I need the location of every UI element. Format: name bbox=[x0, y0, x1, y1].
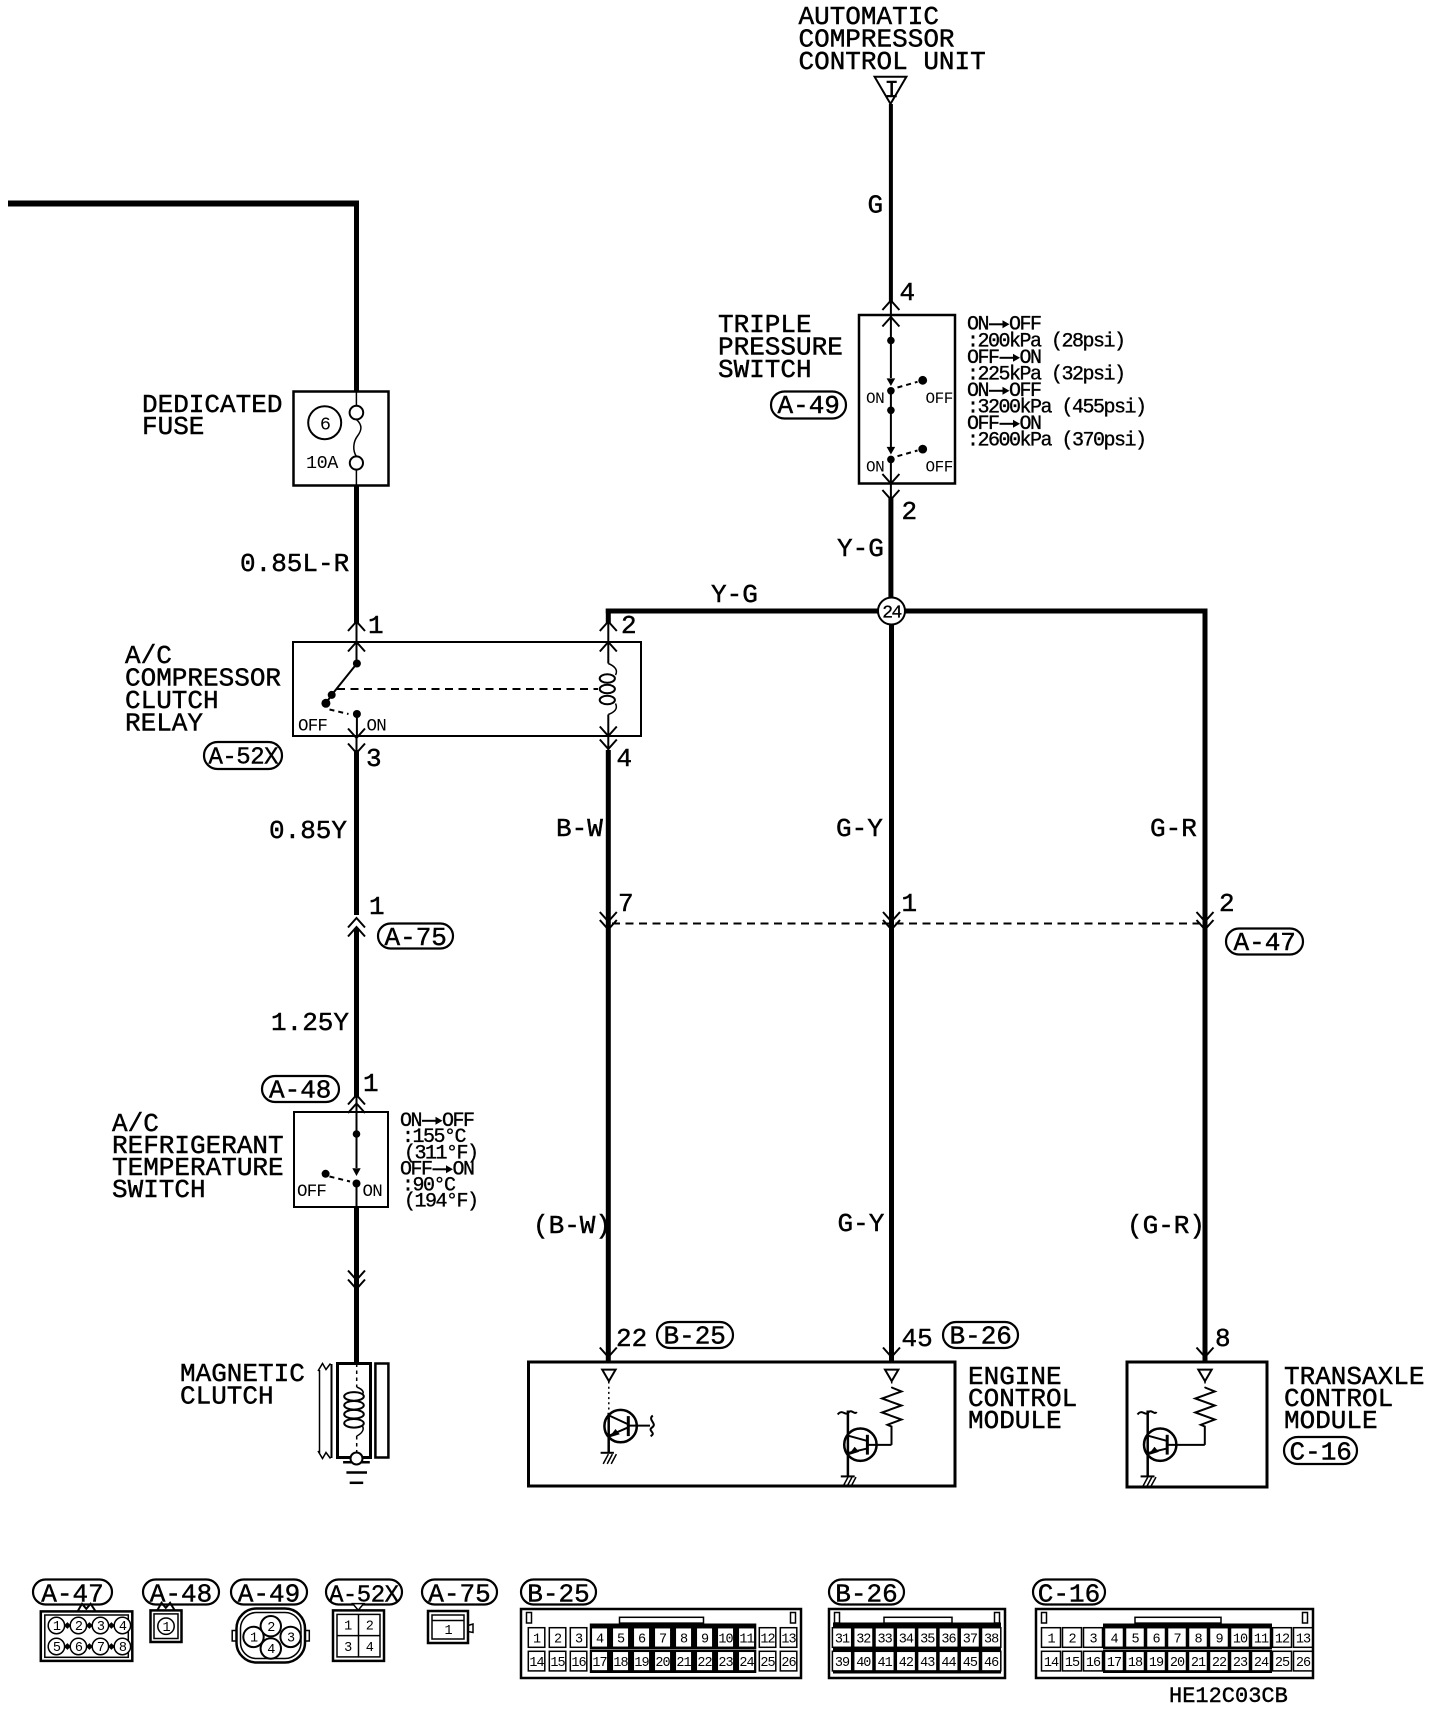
connector view label C-16 bbox=[1033, 1579, 1105, 1609]
svg-text:33: 33 bbox=[877, 1632, 892, 1647]
svg-text:B-25: B-25 bbox=[664, 1322, 726, 1352]
transistor Q1 (ECM pin 22 driver) bbox=[604, 1410, 653, 1442]
svg-text:ON: ON bbox=[866, 459, 884, 477]
relay pin 4 bbox=[600, 727, 632, 775]
svg-text:MODULE: MODULE bbox=[968, 1406, 1062, 1436]
svg-text:34: 34 bbox=[899, 1632, 914, 1647]
svg-text:G: G bbox=[868, 191, 884, 221]
svg-text:2: 2 bbox=[621, 611, 637, 641]
svg-text:22: 22 bbox=[616, 1324, 647, 1354]
relay coil (pins 2-4) bbox=[600, 642, 617, 736]
wire B-W from relay pin 4 to ECM pin 22 bbox=[533, 750, 611, 1361]
svg-text:13: 13 bbox=[1296, 1632, 1311, 1647]
connector view label B-26 bbox=[829, 1579, 904, 1609]
ECM input triangle at pin 22 bbox=[602, 1370, 615, 1382]
svg-text:4: 4 bbox=[900, 278, 916, 308]
connector view label A-52X bbox=[326, 1580, 402, 1610]
svg-text:16: 16 bbox=[1086, 1656, 1101, 1671]
svg-text:9: 9 bbox=[701, 1632, 709, 1647]
svg-text:1: 1 bbox=[1047, 1632, 1055, 1647]
connector label B-25 bbox=[657, 1322, 733, 1352]
svg-text:5: 5 bbox=[617, 1632, 625, 1647]
TCM pin 8 bbox=[1197, 1324, 1231, 1357]
svg-text:12: 12 bbox=[1275, 1632, 1290, 1647]
connector label A-48 bbox=[262, 1076, 339, 1106]
resistor R1 (ECM pin 45 pull) bbox=[882, 1388, 902, 1445]
svg-text:44: 44 bbox=[941, 1656, 956, 1671]
svg-text:17: 17 bbox=[1107, 1656, 1122, 1671]
connector A-47 pin 2 (G-R) bbox=[1197, 889, 1235, 930]
svg-text:A-47: A-47 bbox=[1234, 928, 1296, 958]
temperature spec text bbox=[400, 1110, 478, 1214]
pin 4 of triple pressure switch bbox=[882, 278, 915, 340]
svg-text:B-W: B-W bbox=[556, 814, 603, 844]
svg-text:41: 41 bbox=[877, 1656, 892, 1671]
svg-text:45: 45 bbox=[902, 1324, 933, 1354]
wire 0.85L-R from fuse to relay bbox=[240, 486, 357, 625]
svg-text:1: 1 bbox=[53, 1620, 61, 1635]
svg-text:1: 1 bbox=[444, 1624, 452, 1639]
svg-text:(B-W): (B-W) bbox=[533, 1211, 611, 1241]
A/C refrigerant temperature switch box bbox=[294, 1112, 388, 1207]
svg-text:4: 4 bbox=[1110, 1632, 1118, 1647]
svg-text:7: 7 bbox=[659, 1632, 667, 1647]
connector label A-75 bbox=[378, 923, 453, 953]
relay pin 1 bbox=[348, 611, 384, 663]
wire down to dedicated fuse bbox=[354, 206, 359, 391]
svg-text:B-25: B-25 bbox=[527, 1579, 589, 1609]
magnetic clutch rotor plate bbox=[375, 1364, 388, 1458]
svg-text:21: 21 bbox=[1191, 1656, 1206, 1671]
svg-text:(194°F): (194°F) bbox=[404, 1191, 478, 1214]
dotted link to resistor R1 bbox=[891, 1382, 893, 1389]
connector I (triangle to automatic compressor control unit) bbox=[875, 77, 907, 105]
svg-text:31: 31 bbox=[835, 1632, 850, 1647]
svg-text:3: 3 bbox=[344, 1641, 352, 1656]
svg-text:7: 7 bbox=[97, 1641, 105, 1656]
connector body B-25 (1-26) bbox=[521, 1609, 801, 1678]
svg-text:2: 2 bbox=[1068, 1632, 1076, 1647]
svg-text:25: 25 bbox=[760, 1656, 775, 1671]
svg-text:7: 7 bbox=[618, 889, 634, 919]
svg-text:8: 8 bbox=[119, 1641, 127, 1656]
svg-text:2: 2 bbox=[902, 497, 918, 527]
transaxle control module box bbox=[1127, 1362, 1267, 1487]
ECM pin 22 bbox=[600, 1324, 647, 1357]
svg-text:ON: ON bbox=[866, 390, 884, 408]
node 24 (joint connector) bbox=[878, 598, 905, 625]
svg-text:26: 26 bbox=[781, 1656, 796, 1671]
svg-text:24: 24 bbox=[1254, 1656, 1269, 1671]
wire G-R from bus to TCM pin 8 bbox=[1127, 814, 1205, 1241]
svg-text:8: 8 bbox=[680, 1632, 688, 1647]
svg-text:10: 10 bbox=[1233, 1632, 1248, 1647]
svg-text:18: 18 bbox=[613, 1656, 628, 1671]
svg-text:32: 32 bbox=[856, 1632, 871, 1647]
svg-text:ON: ON bbox=[367, 717, 387, 737]
relay pin 2 bbox=[600, 611, 637, 652]
svg-text:OFF: OFF bbox=[298, 717, 327, 737]
svg-text:13: 13 bbox=[781, 1632, 796, 1647]
connector body A-75 (1-pin) bbox=[428, 1611, 473, 1643]
A/C compressor clutch relay A-52X box bbox=[293, 642, 641, 736]
wire from temperature switch to magnetic clutch bbox=[348, 1207, 365, 1363]
triple pressure switch internals: lower high-pressure switch bbox=[866, 445, 953, 484]
svg-text:15: 15 bbox=[550, 1656, 565, 1671]
svg-text:Y-G: Y-G bbox=[837, 534, 884, 564]
A/C refrigerant temperature switch label bbox=[112, 1109, 284, 1205]
svg-text:14: 14 bbox=[1044, 1656, 1059, 1671]
svg-text:10A: 10A bbox=[306, 453, 339, 474]
temperature switch internals bbox=[297, 1130, 382, 1207]
engine control module label bbox=[968, 1362, 1077, 1436]
intermediate connector A-47 dashed line bbox=[612, 923, 1201, 925]
svg-text:FUSE: FUSE bbox=[142, 412, 204, 442]
svg-text:1: 1 bbox=[344, 1620, 352, 1635]
svg-text:4: 4 bbox=[617, 744, 633, 774]
svg-text:46: 46 bbox=[984, 1656, 999, 1671]
connector body A-47 (8-pin) bbox=[41, 1604, 133, 1661]
svg-text:11: 11 bbox=[739, 1632, 754, 1647]
svg-text:1: 1 bbox=[250, 1632, 258, 1647]
svg-text:22: 22 bbox=[697, 1656, 712, 1671]
svg-text:C-16: C-16 bbox=[1038, 1579, 1100, 1609]
svg-text:8: 8 bbox=[1194, 1632, 1202, 1647]
svg-text:11: 11 bbox=[1254, 1632, 1269, 1647]
A/C compressor clutch relay label bbox=[125, 641, 281, 739]
svg-text:I: I bbox=[885, 78, 899, 105]
svg-text:A-52X: A-52X bbox=[329, 1582, 399, 1609]
svg-text:OFF: OFF bbox=[926, 390, 953, 408]
svg-text:OFF: OFF bbox=[297, 1182, 326, 1202]
svg-text:HE12C03CB: HE12C03CB bbox=[1169, 1684, 1288, 1708]
pin 2 of triple pressure switch bbox=[882, 474, 917, 527]
svg-text:SWITCH: SWITCH bbox=[112, 1175, 206, 1205]
wire 0.85Y from relay pin 3 bbox=[269, 750, 357, 915]
svg-text:7: 7 bbox=[1173, 1632, 1181, 1647]
chassis ground under Q3 bbox=[1141, 1476, 1156, 1487]
connector view label A-47 bbox=[33, 1579, 112, 1609]
svg-text:26: 26 bbox=[1296, 1656, 1311, 1671]
svg-text:23: 23 bbox=[1233, 1656, 1248, 1671]
svg-text:CLUTCH: CLUTCH bbox=[180, 1382, 274, 1412]
svg-text:4: 4 bbox=[596, 1632, 604, 1647]
svg-text:ON: ON bbox=[363, 1182, 383, 1202]
svg-text:1: 1 bbox=[363, 1069, 379, 1099]
svg-text:25: 25 bbox=[1275, 1656, 1290, 1671]
svg-text:2: 2 bbox=[267, 1621, 275, 1636]
svg-text:19: 19 bbox=[1149, 1656, 1164, 1671]
magnetic clutch ground terminal bbox=[351, 1453, 363, 1465]
connector body C-16 (1-26) bbox=[1036, 1609, 1313, 1678]
svg-text:3: 3 bbox=[97, 1620, 105, 1635]
svg-text:6: 6 bbox=[638, 1632, 646, 1647]
connector A-47 pin 7 (B-W) bbox=[600, 889, 634, 930]
svg-text:5: 5 bbox=[1131, 1632, 1139, 1647]
svg-text:G-Y: G-Y bbox=[836, 814, 883, 844]
svg-text:24: 24 bbox=[882, 604, 901, 624]
svg-text:0.85L-R: 0.85L-R bbox=[240, 549, 349, 579]
connector body B-26 (31-46) bbox=[829, 1609, 1005, 1678]
triple pressure switch internals: upper low-pressure switch bbox=[866, 337, 953, 447]
svg-text:1: 1 bbox=[533, 1632, 541, 1647]
svg-text:14: 14 bbox=[529, 1656, 544, 1671]
svg-text:A-75: A-75 bbox=[428, 1579, 490, 1609]
svg-text:6: 6 bbox=[1152, 1632, 1160, 1647]
svg-text:42: 42 bbox=[899, 1656, 914, 1671]
svg-text:3: 3 bbox=[287, 1632, 295, 1647]
magnetic clutch armature bracket bbox=[318, 1364, 332, 1459]
connector body A-48 (1-pin) bbox=[151, 1603, 182, 1642]
magnetic clutch label bbox=[180, 1359, 305, 1412]
svg-text:1: 1 bbox=[902, 889, 918, 919]
magnetic clutch coil body bbox=[338, 1364, 371, 1458]
TCM input triangle at pin 8 bbox=[1198, 1370, 1211, 1382]
connector label B-26 bbox=[943, 1322, 1018, 1352]
relay internal dashed actuation line bbox=[337, 688, 598, 690]
svg-text:22: 22 bbox=[1212, 1656, 1227, 1671]
svg-text:MODULE: MODULE bbox=[1284, 1406, 1378, 1436]
transistor Q2 (ECM pin 45 driver) bbox=[838, 1411, 892, 1477]
svg-text:B-26: B-26 bbox=[950, 1322, 1012, 1352]
svg-text:18: 18 bbox=[1128, 1656, 1143, 1671]
svg-text:A-47: A-47 bbox=[41, 1579, 103, 1609]
svg-text:A-48: A-48 bbox=[150, 1579, 212, 1609]
svg-text:SWITCH: SWITCH bbox=[718, 355, 812, 385]
automatic compressor control unit label bbox=[799, 2, 986, 77]
svg-text:6: 6 bbox=[75, 1641, 83, 1656]
svg-text:20: 20 bbox=[655, 1656, 670, 1671]
svg-text:Y-G: Y-G bbox=[711, 580, 758, 610]
ECM input triangle at pin 45 bbox=[885, 1370, 898, 1382]
ground (earth) below magnetic clutch bbox=[343, 1462, 370, 1483]
svg-text:17: 17 bbox=[592, 1656, 607, 1671]
Q1 emitter to ground bbox=[607, 1437, 610, 1453]
transistor Q3 (TCM pin 8 driver) bbox=[1138, 1411, 1205, 1477]
svg-text:16: 16 bbox=[571, 1656, 586, 1671]
engine control module box bbox=[529, 1362, 956, 1486]
connector A-48 pin 1 bbox=[348, 1069, 379, 1134]
chassis ground under Q1 bbox=[601, 1453, 617, 1464]
svg-text:A-52X: A-52X bbox=[209, 745, 279, 772]
svg-text:0.85Y: 0.85Y bbox=[269, 816, 347, 846]
svg-text:CONTROL UNIT: CONTROL UNIT bbox=[799, 47, 986, 77]
connector label C-16 bbox=[1284, 1437, 1357, 1468]
connector A-47 pin 1 (G-Y) bbox=[883, 889, 917, 930]
connector A-75 pin 1 bbox=[348, 892, 385, 937]
svg-text:G-R: G-R bbox=[1150, 814, 1197, 844]
pressure spec text bbox=[967, 314, 1146, 453]
wire Y-G from pressure switch to junction 24 bbox=[837, 497, 891, 605]
relay switch (pins 1-3) bbox=[298, 660, 386, 737]
svg-text:35: 35 bbox=[920, 1632, 935, 1647]
svg-text:G-Y: G-Y bbox=[838, 1209, 885, 1239]
battery feed wire (thick) top left bbox=[8, 201, 359, 207]
dedicated fuse No.6 10A bbox=[294, 392, 389, 486]
svg-text:3: 3 bbox=[1089, 1632, 1097, 1647]
svg-text:2: 2 bbox=[1219, 889, 1235, 919]
connector body A-49 (4-pin round) bbox=[232, 1609, 309, 1663]
connector view label A-48 bbox=[143, 1579, 219, 1609]
svg-text:2: 2 bbox=[75, 1620, 83, 1635]
connector label A-52X bbox=[204, 742, 282, 772]
svg-text:15: 15 bbox=[1065, 1656, 1080, 1671]
svg-text::2600kPa (370psi): :2600kPa (370psi) bbox=[967, 430, 1146, 453]
svg-text:2: 2 bbox=[366, 1620, 374, 1635]
wire G-Y from node 24 to ECM pin 45 bbox=[836, 624, 892, 1361]
svg-text:5: 5 bbox=[53, 1641, 61, 1656]
svg-text:1: 1 bbox=[162, 1621, 170, 1636]
ECM pin 45 bbox=[883, 1324, 933, 1357]
svg-text:6: 6 bbox=[320, 415, 331, 436]
chassis ground under Q2 bbox=[841, 1476, 856, 1487]
svg-text:21: 21 bbox=[676, 1656, 691, 1671]
connector view label A-75 bbox=[422, 1579, 497, 1609]
dotted link to transistor Q1 bbox=[608, 1382, 610, 1413]
svg-text:39: 39 bbox=[835, 1656, 850, 1671]
svg-text:10: 10 bbox=[718, 1632, 733, 1647]
svg-text:43: 43 bbox=[920, 1656, 935, 1671]
svg-text:RELAY: RELAY bbox=[125, 709, 203, 739]
svg-text:2: 2 bbox=[554, 1632, 562, 1647]
svg-text:45: 45 bbox=[963, 1656, 978, 1671]
wire G (green) from control unit to triple pressure switch bbox=[868, 104, 891, 302]
svg-text:A-49: A-49 bbox=[238, 1579, 300, 1609]
svg-text:1: 1 bbox=[368, 611, 384, 641]
svg-text:A-49: A-49 bbox=[778, 391, 840, 421]
svg-text:A-48: A-48 bbox=[269, 1076, 331, 1106]
svg-text:3: 3 bbox=[575, 1632, 583, 1647]
svg-text:9: 9 bbox=[1215, 1632, 1223, 1647]
connector view label B-25 bbox=[521, 1579, 596, 1609]
svg-text:40: 40 bbox=[856, 1656, 871, 1671]
svg-text:1.25Y: 1.25Y bbox=[271, 1008, 349, 1038]
svg-text:24: 24 bbox=[739, 1656, 754, 1671]
svg-text:A-75: A-75 bbox=[385, 923, 447, 953]
wire 1.25Y from A-75 to A-48 bbox=[271, 928, 357, 1097]
svg-text:4: 4 bbox=[119, 1620, 127, 1635]
wire Y-G bus to relay and transaxle branch bbox=[606, 580, 1208, 1361]
relay pin 3 bbox=[348, 729, 382, 775]
connector view label A-49 bbox=[231, 1579, 307, 1609]
svg-text:12: 12 bbox=[760, 1632, 775, 1647]
svg-text:(G-R): (G-R) bbox=[1127, 1211, 1205, 1241]
svg-text:38: 38 bbox=[984, 1632, 999, 1647]
resistor R2 (TCM pin 8 pull) bbox=[1195, 1388, 1215, 1445]
svg-text:4: 4 bbox=[267, 1643, 275, 1658]
svg-text:4: 4 bbox=[366, 1641, 374, 1656]
svg-text:OFF: OFF bbox=[926, 459, 953, 477]
svg-text:B-26: B-26 bbox=[835, 1579, 897, 1609]
svg-text:19: 19 bbox=[634, 1656, 649, 1671]
svg-text:3: 3 bbox=[366, 744, 382, 774]
svg-text:C-16: C-16 bbox=[1290, 1438, 1352, 1468]
svg-text:8: 8 bbox=[1215, 1324, 1231, 1354]
connector label A-49 bbox=[771, 391, 846, 421]
connector body A-52X (4-pin) bbox=[333, 1604, 384, 1661]
svg-text:1: 1 bbox=[369, 892, 385, 922]
dotted link to resistor R2 bbox=[1204, 1382, 1206, 1389]
connector label A-47 bbox=[1226, 928, 1303, 958]
svg-text:36: 36 bbox=[941, 1632, 956, 1647]
dedicated fuse label bbox=[142, 390, 282, 442]
transaxle control module label bbox=[1284, 1362, 1424, 1436]
svg-text:23: 23 bbox=[718, 1656, 733, 1671]
svg-text:20: 20 bbox=[1170, 1656, 1185, 1671]
triple pressure switch A-49 bbox=[718, 310, 955, 484]
svg-text:37: 37 bbox=[963, 1632, 978, 1647]
